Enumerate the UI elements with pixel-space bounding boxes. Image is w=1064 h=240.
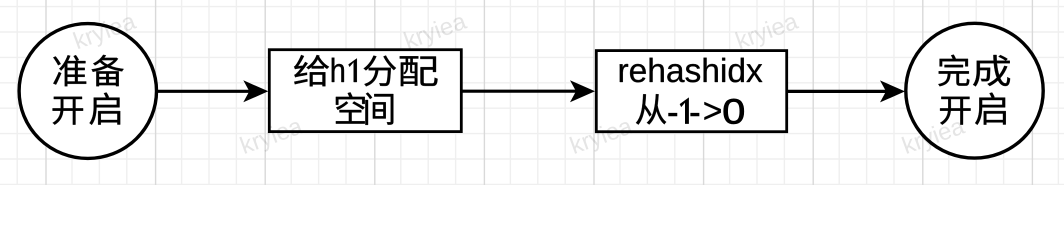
circle2 text line1: 完成 (938, 55, 969, 87)
process box 2: rehashidx 从-1->0 (596, 51, 786, 132)
box2 text line2: 从-1->0 (636, 94, 666, 124)
box2 text line1: rehashidx (620, 64, 628, 82)
start circle: 准备开启 (19, 24, 156, 159)
circle1 text line1: 准备 (53, 55, 86, 86)
kryiea watermarks (70, 8, 969, 160)
circle1 text line2: 开启 (53, 97, 83, 125)
canvas background (0, 0, 1064, 185)
box1 text line2: 空间 (336, 92, 365, 123)
grid minor lines (0, 0, 1064, 185)
arrow 1: circle1 to box1 (157, 90, 252, 93)
box1 text line1: 给h1分配 (294, 55, 329, 86)
arrow 2: box1 to box2 (461, 90, 578, 93)
arrow 3: box2 to circle2 (787, 90, 888, 93)
circle2 text line2: 开启 (940, 97, 970, 125)
grid major lines (46, 0, 1032, 185)
process box 1: 给h1分配空间 (269, 50, 461, 132)
end circle: 完成开启 (906, 23, 1043, 158)
